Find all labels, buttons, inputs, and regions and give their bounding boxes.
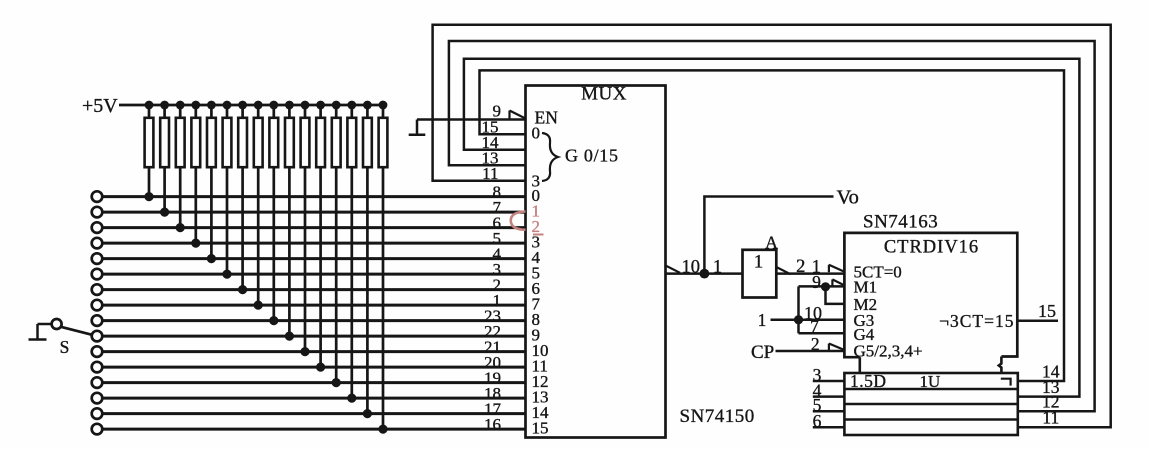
svg-text:1: 1: [754, 252, 764, 273]
svg-text:A: A: [765, 233, 778, 253]
svg-text:SN74150: SN74150: [680, 406, 755, 427]
svg-text:MUX: MUX: [581, 84, 627, 105]
svg-text:SN74163: SN74163: [863, 212, 938, 233]
svg-text:S: S: [60, 337, 70, 357]
svg-text:CP: CP: [751, 342, 774, 363]
svg-text:15: 15: [532, 419, 549, 438]
svg-text:¬3CT=15: ¬3CT=15: [939, 311, 1014, 331]
svg-text:Vo: Vo: [837, 187, 859, 209]
svg-text:10: 10: [681, 258, 700, 278]
svg-text:9: 9: [812, 272, 821, 292]
svg-text:1U: 1U: [920, 372, 941, 391]
svg-text:G5/2,3,4+: G5/2,3,4+: [854, 342, 923, 361]
svg-text:11: 11: [1042, 408, 1059, 428]
svg-text:1: 1: [713, 258, 722, 278]
svg-text:1: 1: [758, 310, 767, 330]
svg-text:1.5D: 1.5D: [850, 371, 887, 391]
svg-text:2: 2: [796, 257, 805, 277]
svg-text:+5V: +5V: [82, 95, 118, 117]
svg-text:16: 16: [484, 415, 501, 434]
svg-text:G 0/15: G 0/15: [565, 146, 619, 166]
svg-text:CTRDIV16: CTRDIV16: [884, 238, 979, 258]
svg-text:2: 2: [811, 334, 820, 354]
svg-text:11: 11: [482, 164, 498, 183]
svg-text:15: 15: [1038, 301, 1056, 321]
svg-text:6: 6: [813, 411, 822, 431]
svg-text:M1: M1: [854, 278, 878, 297]
svg-text:0: 0: [532, 124, 541, 143]
